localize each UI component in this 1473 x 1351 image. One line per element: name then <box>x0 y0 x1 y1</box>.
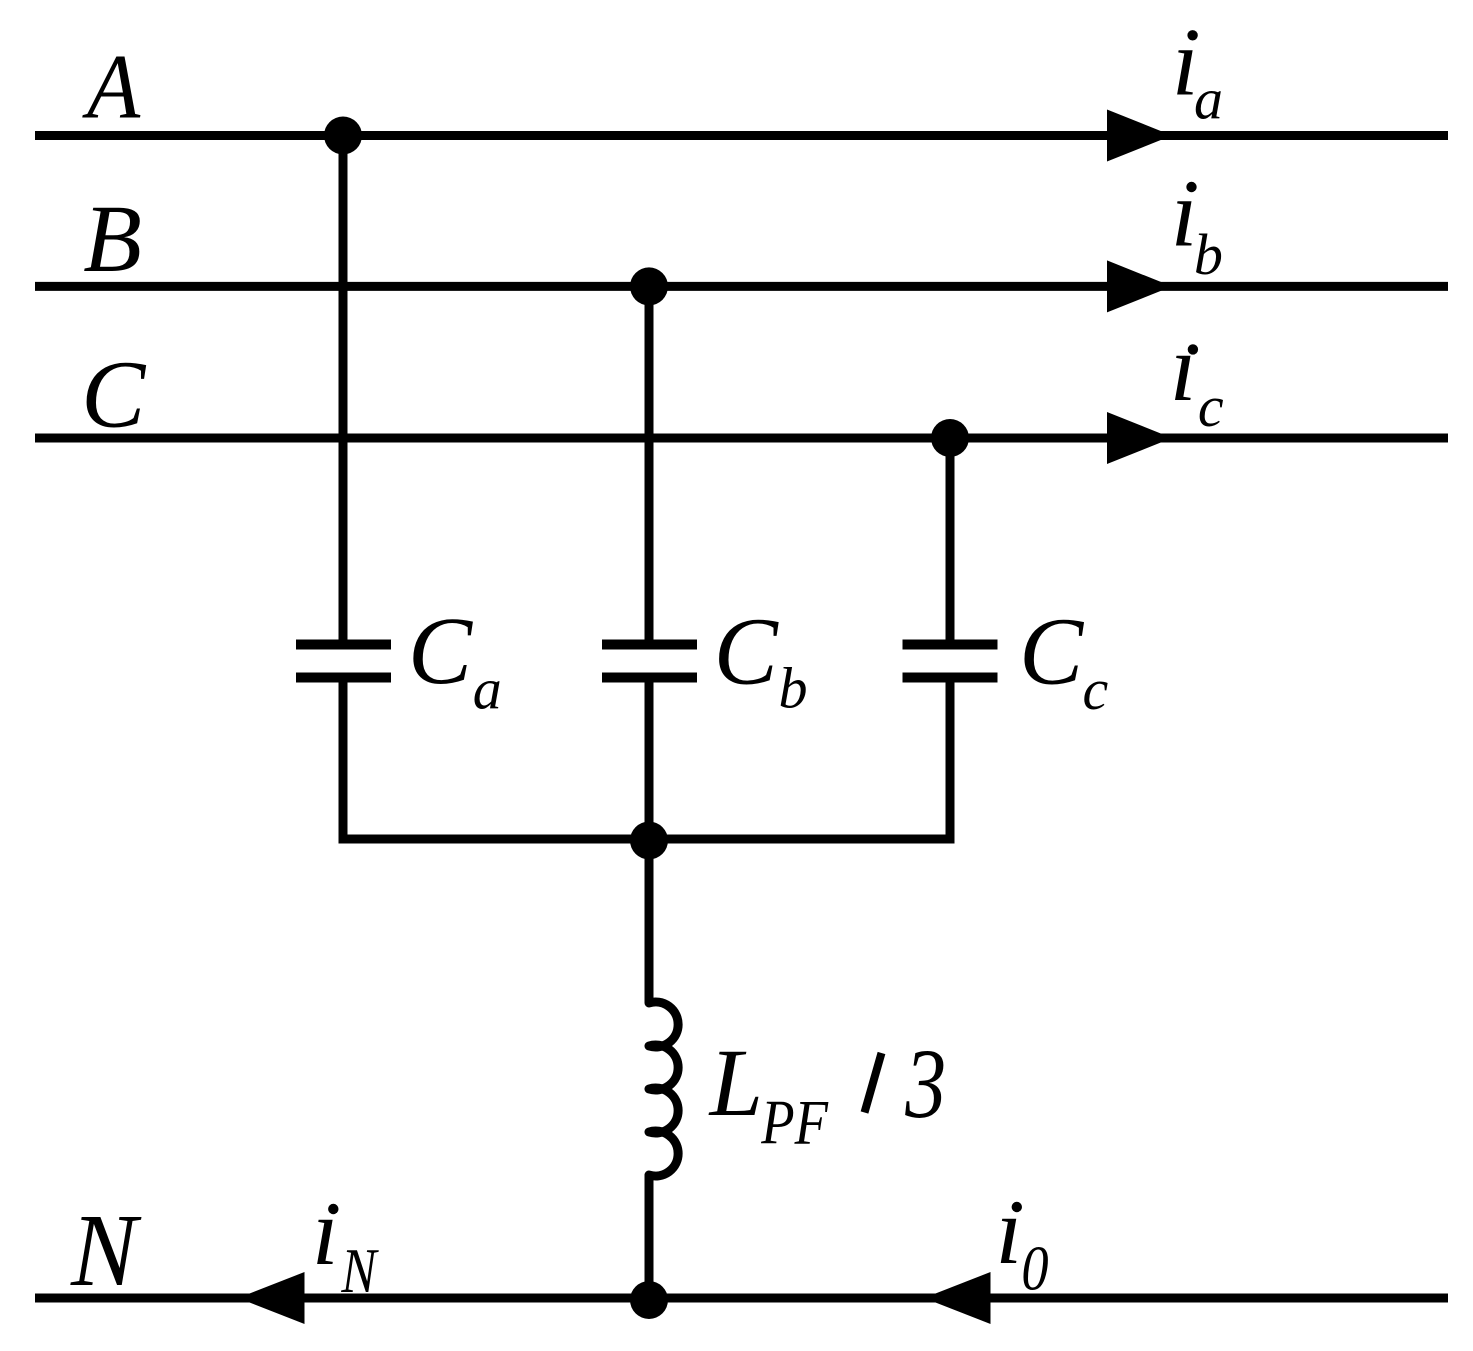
svg-text:a: a <box>473 657 502 722</box>
svg-text:PF: PF <box>760 1087 828 1158</box>
svg-text:ı: ı <box>312 1178 339 1285</box>
svg-text:N: N <box>341 1235 380 1306</box>
svg-text:ı: ı <box>1170 314 1197 421</box>
svg-text:C: C <box>81 340 146 447</box>
svg-text:a: a <box>1194 66 1223 131</box>
svg-text:C: C <box>714 598 779 705</box>
svg-text:c: c <box>1198 374 1224 439</box>
svg-text:C: C <box>1019 598 1084 705</box>
svg-text:0: 0 <box>1021 1232 1048 1303</box>
svg-text:b: b <box>779 656 808 721</box>
svg-text:c: c <box>1083 657 1109 722</box>
svg-text:N: N <box>70 1193 142 1308</box>
svg-text:3: 3 <box>904 1028 946 1138</box>
svg-text:C: C <box>408 597 473 704</box>
svg-text:ı: ı <box>996 1177 1023 1284</box>
svg-text:b: b <box>1194 222 1223 287</box>
svg-text:A: A <box>82 36 140 138</box>
svg-text:L: L <box>708 1029 763 1136</box>
svg-text:B: B <box>83 185 142 292</box>
